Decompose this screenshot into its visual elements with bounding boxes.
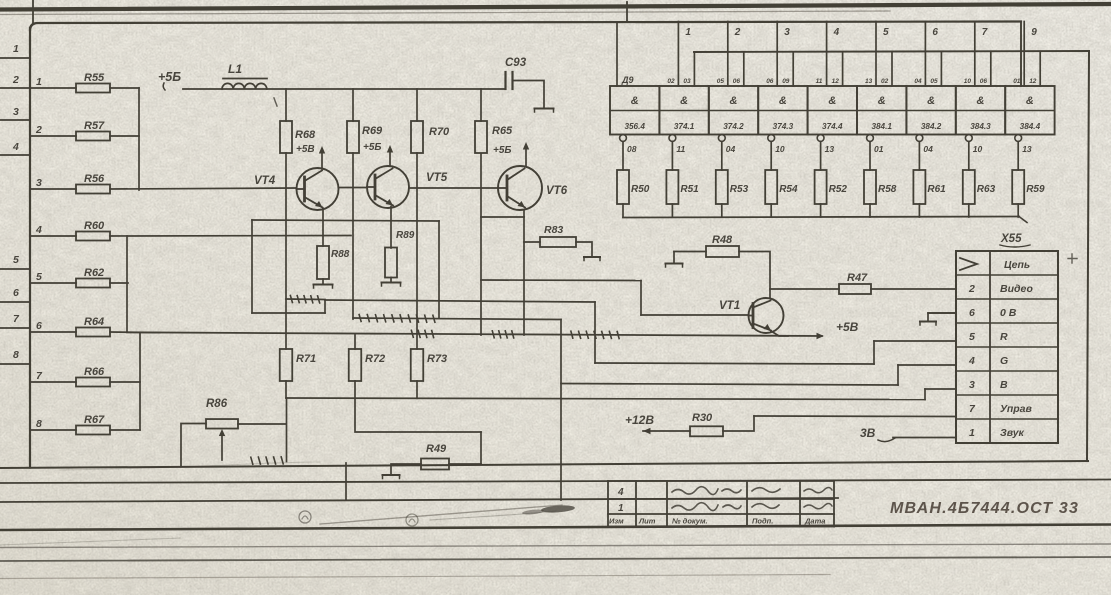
- resistor R68: [280, 121, 292, 153]
- gate inverted output pin: [768, 135, 775, 142]
- svg-text:05: 05: [717, 78, 725, 85]
- svg-text:R68: R68: [295, 129, 316, 141]
- resistor R69: [347, 121, 359, 153]
- svg-text:3: 3: [36, 177, 42, 189]
- svg-text:3: 3: [784, 27, 790, 38]
- gate output wire 1: [677, 22, 679, 87]
- faint scratch lines: [0, 538, 180, 545]
- svg-text:06: 06: [733, 78, 741, 85]
- wire rail to R68: [285, 89, 287, 121]
- +12V arrowhead: [643, 428, 651, 434]
- svg-text:R69: R69: [362, 125, 383, 137]
- svg-text:Х55: Х55: [1000, 233, 1022, 245]
- wire exiting top border left: [32, 0, 34, 24]
- svg-text:R61: R61: [927, 184, 946, 195]
- gate output wire 2: [727, 22, 729, 87]
- W2 step up: [897, 365, 899, 385]
- VT6 emitter wire: [523, 210, 525, 335]
- svg-text:8: 8: [36, 418, 42, 430]
- wire to chassis at R48: [673, 252, 675, 264]
- wire gate to R51: [671, 142, 673, 171]
- wire R86 to R71 column: [238, 423, 286, 425]
- page top edge line: [0, 4, 1111, 10]
- svg-text:05: 05: [930, 78, 938, 85]
- svg-text:374.2: 374.2: [723, 122, 744, 131]
- wire bus to R72: [354, 335, 356, 349]
- svg-text:10: 10: [775, 144, 785, 154]
- base line between VT5 and VT6: [409, 187, 498, 189]
- bus A joining R55 R57 R56: [138, 88, 140, 190]
- logic gate D9 element 356.4: [610, 86, 659, 135]
- X55 label underline: [1000, 245, 1030, 247]
- svg-text:2: 2: [35, 124, 42, 136]
- svg-text:4: 4: [35, 224, 42, 236]
- svg-text:R73: R73: [427, 353, 447, 365]
- svg-text:2: 2: [968, 283, 975, 295]
- gate output wire 9: [1023, 22, 1025, 87]
- svg-text:R56: R56: [84, 173, 105, 185]
- svg-text:+12В: +12В: [625, 413, 654, 427]
- logic gate D9 element 374.2: [709, 86, 758, 135]
- svg-text:VT1: VT1: [719, 300, 740, 312]
- transistor VT6: [498, 166, 542, 210]
- wire rail to R65: [480, 89, 482, 121]
- resistor R30: [690, 426, 723, 436]
- wire R88 to chassis: [322, 279, 324, 284]
- wire R55 to bus A: [110, 87, 139, 89]
- wire R66 to bus C: [110, 381, 140, 383]
- edge connector stub 3: [0, 119, 30, 121]
- svg-text:&: &: [1026, 95, 1034, 107]
- bus C joining R66 R67: [139, 333, 141, 430]
- wire R48 left: [674, 251, 706, 253]
- handwritten entries row 2: [672, 503, 741, 511]
- svg-text:6: 6: [36, 320, 42, 332]
- B step up at connector: [924, 389, 926, 400]
- wire R47 to pin 2 Video: [871, 288, 956, 290]
- bottom frame-bus horizontal wire: [0, 461, 1088, 468]
- wire R68 down through base node: [285, 153, 287, 349]
- gate pin to second rail: [792, 52, 794, 86]
- svg-text:11: 11: [676, 144, 685, 154]
- svg-text:13: 13: [825, 144, 835, 154]
- logic gate D9 element 384.4: [1005, 86, 1054, 135]
- svg-text:10: 10: [973, 144, 983, 154]
- wire to pin 7 Uprav: [754, 415, 956, 418]
- supply arrow hook: [163, 83, 165, 90]
- resistor R47: [839, 284, 871, 294]
- wire down to R49: [480, 432, 482, 464]
- svg-text:L1: L1: [228, 62, 242, 76]
- svg-text:04: 04: [923, 144, 933, 154]
- svg-text:374.3: 374.3: [773, 122, 794, 131]
- VT4 emitter wire: [322, 209, 324, 247]
- X55 header arrow: [960, 258, 977, 270]
- svg-text:1: 1: [36, 76, 42, 88]
- R86 wiper arrow: [221, 432, 223, 460]
- wire VT1 collector node to R47: [770, 288, 839, 290]
- edge connector stub 6: [0, 301, 30, 303]
- logic gate D9 element 374.3: [758, 86, 807, 135]
- svg-text:+5Б: +5Б: [363, 142, 381, 153]
- wire jog from B row: [355, 399, 481, 432]
- svg-text:R88: R88: [331, 249, 350, 260]
- svg-text:Изм: Изм: [609, 517, 624, 526]
- wire gate to R54: [770, 142, 772, 171]
- svg-text:+5Б: +5Б: [493, 145, 511, 156]
- svg-text:02: 02: [667, 78, 675, 85]
- long wire bottom 2: [0, 498, 838, 502]
- svg-text:4: 4: [968, 355, 975, 367]
- wire to R66: [30, 381, 76, 383]
- gate inverted output pin: [965, 135, 972, 142]
- wire R49 left to chassis: [391, 464, 421, 474]
- gate pin to second rail: [891, 52, 893, 86]
- gate inverted output pin: [669, 135, 676, 142]
- wire to R62: [30, 282, 76, 284]
- svg-text:13: 13: [865, 78, 873, 85]
- svg-text:+5В: +5В: [836, 320, 859, 334]
- signal wire W1 to connector R: [325, 300, 595, 302]
- svg-text:R54: R54: [779, 184, 798, 195]
- svg-text:R52: R52: [829, 184, 848, 195]
- svg-text:R51: R51: [680, 184, 699, 195]
- svg-text:VT5: VT5: [426, 172, 448, 184]
- edge connector stub 1: [0, 57, 30, 59]
- small cross mark near connector: [1068, 254, 1077, 263]
- wire R30 step up: [723, 416, 754, 431]
- inductor L1: [222, 83, 267, 89]
- wire R63 to bottom bus: [968, 204, 970, 217]
- svg-text:6: 6: [932, 27, 938, 38]
- svg-text:1: 1: [13, 43, 19, 55]
- svg-text:13: 13: [1022, 144, 1032, 154]
- transistor VT5: [367, 166, 409, 208]
- resistor R58: [864, 170, 876, 204]
- resistor R52: [815, 170, 827, 204]
- svg-text:5: 5: [36, 271, 42, 283]
- svg-text:R50: R50: [631, 184, 650, 195]
- wire from top bus down to D9 box 9 pin: [1020, 22, 1022, 87]
- wire R54 to bottom bus: [770, 204, 772, 217]
- svg-text:R30: R30: [692, 412, 713, 424]
- wire to R55: [30, 87, 76, 89]
- svg-text:Видео: Видео: [1000, 283, 1033, 295]
- svg-text:R55: R55: [84, 72, 105, 84]
- svg-text:09: 09: [782, 78, 790, 85]
- L1 symbol underline: [223, 78, 267, 80]
- resistor R64: [76, 328, 110, 337]
- svg-text:R49: R49: [426, 443, 447, 455]
- resistor R89: [385, 248, 397, 278]
- svg-text:01: 01: [874, 144, 884, 154]
- chassis ground at R48: [666, 263, 683, 265]
- gate inverted output pin: [718, 135, 725, 142]
- svg-text:R86: R86: [206, 398, 228, 410]
- svg-text:R59: R59: [1026, 184, 1045, 195]
- pen tick near rail: [274, 98, 277, 106]
- chassis ground at R89: [382, 282, 401, 284]
- svg-text:+5Б: +5Б: [158, 70, 181, 84]
- svg-text:&: &: [631, 95, 639, 107]
- wire down to VT1 base line: [640, 281, 642, 316]
- wire R61 to bottom bus: [918, 204, 920, 217]
- frame-bus top horizontal wire: [30, 22, 1021, 31]
- second top rail to gate right pins: [694, 51, 1089, 52]
- gate inverted output pin: [867, 135, 874, 142]
- hatched wire from R68 node: [286, 298, 325, 301]
- chassis bar 0V: [920, 321, 936, 323]
- wire R64 to +5V bus: [110, 331, 160, 334]
- wire R52 to bottom bus: [820, 204, 822, 217]
- wire gate to R59: [1017, 142, 1019, 171]
- long wire bottom 1: [0, 480, 1111, 484]
- gate inverted output pin: [817, 135, 824, 142]
- svg-text:R47: R47: [847, 272, 868, 284]
- resistor R65: [475, 121, 487, 153]
- old wire loop bottom: [252, 312, 325, 314]
- wire jog between bottom wires: [345, 463, 347, 500]
- resistor R83: [524, 241, 540, 243]
- chassis ground at R83: [584, 256, 600, 258]
- svg-text:9: 9: [1031, 27, 1037, 38]
- svg-text:R71: R71: [296, 353, 316, 365]
- wire C93 to chassis: [513, 81, 544, 109]
- svg-text:384.1: 384.1: [871, 122, 892, 131]
- svg-text:&: &: [779, 95, 787, 107]
- W2 step down long: [560, 320, 562, 501]
- svg-text:В: В: [1000, 379, 1008, 391]
- svg-text:3: 3: [969, 379, 975, 391]
- hatch marks near R86 junction: [251, 457, 283, 464]
- wire to R64: [30, 331, 76, 333]
- edge connector stub 8: [0, 363, 30, 365]
- gate output wire 3: [776, 22, 778, 87]
- long +5V distribution bus with revision hatches: [127, 332, 822, 336]
- svg-text:Управ: Управ: [1000, 403, 1033, 415]
- resistor R62: [76, 279, 110, 288]
- svg-text:03: 03: [683, 78, 691, 85]
- logic gate D9 element 384.3: [956, 86, 1005, 135]
- svg-text:R: R: [1000, 331, 1008, 343]
- VT5 collector +5V arrow: [389, 149, 391, 166]
- resistor R59: [1012, 170, 1024, 204]
- VT1 base wire: [641, 314, 749, 316]
- svg-text:5: 5: [969, 331, 975, 343]
- svg-text:2: 2: [12, 74, 19, 86]
- svg-text:10: 10: [964, 78, 972, 85]
- bus end hook: [1019, 217, 1027, 223]
- logic gate D9 element 374.1: [659, 86, 708, 135]
- chassis ground at 0V pin: [928, 313, 956, 321]
- svg-text:R64: R64: [84, 316, 104, 328]
- resistor R73: [411, 349, 424, 381]
- wire R65 down to bus: [480, 154, 482, 335]
- svg-text:&: &: [680, 95, 688, 107]
- logic gate D9 element 384.1: [857, 86, 906, 135]
- VT1 emitter wire to +5V bus arrow: [771, 331, 788, 336]
- capacitor C93 plates: [504, 72, 506, 89]
- stamp mark circle 1: [299, 511, 311, 523]
- chassis ground at R49: [383, 474, 400, 476]
- svg-text:5: 5: [13, 254, 19, 266]
- resistor R49: [421, 459, 449, 470]
- wire exiting top border centre: [626, 2, 628, 22]
- svg-text:3В: 3В: [860, 426, 876, 440]
- W1 step down: [594, 302, 596, 363]
- wire R53 to bottom bus: [721, 204, 723, 217]
- resistor R88: [317, 246, 329, 279]
- page lower edge line: [0, 557, 1111, 561]
- gate 1 pin to top bus: [616, 23, 618, 86]
- chassis ground at R88: [314, 284, 333, 286]
- wire R57 to bus A: [110, 135, 139, 137]
- wire to R86: [181, 424, 206, 466]
- gate pin to second rail: [693, 52, 695, 86]
- svg-text:C93: C93: [505, 57, 527, 69]
- svg-text:384.4: 384.4: [1020, 122, 1041, 131]
- wire R56 to VT4 base: [110, 188, 297, 189]
- bottom border line: [0, 525, 1111, 531]
- svg-text:&: &: [828, 95, 836, 107]
- svg-text:4: 4: [12, 141, 19, 153]
- frame-bus left vertical wire: [29, 28, 31, 468]
- wire R62 to bus B: [110, 282, 128, 284]
- title block table: [608, 480, 834, 482]
- svg-text:6: 6: [969, 307, 975, 319]
- svg-text:R65: R65: [492, 125, 513, 137]
- faint lower line: [0, 575, 830, 579]
- wire R83 to chassis: [576, 242, 592, 256]
- resistor R70: [411, 121, 423, 153]
- svg-text:R89: R89: [396, 230, 415, 241]
- svg-text:06: 06: [980, 78, 988, 85]
- resistor R54: [765, 170, 777, 204]
- wire R59 to bottom bus: [1017, 204, 1019, 217]
- VT5 emitter wire: [390, 207, 392, 249]
- arrowhead of +5V bus at VT1 emitter: [817, 333, 825, 339]
- transistor VT4: [297, 168, 339, 210]
- svg-text:4: 4: [617, 487, 624, 498]
- svg-text:356.4: 356.4: [624, 122, 645, 131]
- resistor R63: [963, 170, 975, 204]
- signal wire B row: [286, 398, 925, 400]
- old wire loop right: [438, 221, 440, 318]
- handwritten entries row 1: [672, 487, 741, 495]
- ink smudge: [541, 504, 575, 513]
- svg-text:374.1: 374.1: [674, 122, 695, 131]
- svg-text:&: &: [878, 95, 886, 107]
- connector X55 body: [956, 251, 1058, 443]
- gate pin to second rail: [940, 52, 942, 86]
- svg-text:&: &: [977, 95, 985, 107]
- svg-text:МВАН.4Б7444.ОСТ 33: МВАН.4Б7444.ОСТ 33: [890, 500, 1079, 517]
- stamp mark circle 2: [406, 514, 418, 526]
- svg-text:R62: R62: [84, 267, 104, 279]
- svg-text:374.4: 374.4: [822, 122, 843, 131]
- wire gate to R63: [968, 142, 970, 171]
- hatched wire W2 from R69 column: [353, 318, 561, 320]
- emitter link wire to R65 column: [481, 216, 524, 218]
- potentiometer R86: [206, 419, 238, 429]
- svg-text:04: 04: [726, 144, 736, 154]
- transistor VT1: [749, 298, 784, 333]
- svg-text:11: 11: [816, 78, 823, 85]
- svg-text:&: &: [927, 95, 935, 107]
- svg-text:4: 4: [833, 27, 840, 38]
- svg-text:3: 3: [13, 106, 19, 118]
- wire to R60: [30, 235, 76, 237]
- svg-text:12: 12: [1029, 78, 1037, 85]
- base line between VT4 and VT5: [339, 187, 368, 189]
- resistor R61: [913, 170, 925, 204]
- svg-text:№ докум.: № докум.: [672, 517, 708, 526]
- svg-text:R57: R57: [84, 120, 105, 132]
- svg-text:R70: R70: [429, 126, 450, 138]
- svg-text:384.2: 384.2: [921, 122, 942, 131]
- resistor R56: [76, 185, 110, 194]
- wire rail to R69: [352, 89, 354, 121]
- svg-text:08: 08: [627, 144, 637, 154]
- svg-text:G: G: [1000, 355, 1008, 367]
- wire into pin 4 G: [898, 364, 956, 366]
- wire R71 bottom: [285, 381, 287, 398]
- resistor R50: [617, 170, 629, 204]
- wire gate to R50: [622, 142, 624, 171]
- gate pin to second rail: [842, 52, 844, 86]
- resistor R71: [280, 349, 293, 381]
- svg-text:1: 1: [618, 503, 624, 514]
- old wire loop top: [252, 220, 439, 221]
- svg-text:5: 5: [883, 27, 889, 38]
- svg-text:1: 1: [685, 27, 691, 38]
- svg-text:R63: R63: [977, 184, 996, 195]
- wire R49 right: [449, 463, 481, 465]
- svg-text:R53: R53: [730, 184, 749, 195]
- svg-text:R58: R58: [878, 184, 897, 195]
- resistor R55: [76, 84, 110, 93]
- resistor R66: [76, 378, 110, 387]
- wire link to VT1 base column: [481, 279, 641, 282]
- logic gate D9 element 384.2: [906, 86, 955, 135]
- edge connector stub 4: [0, 154, 30, 156]
- wire R58 to bottom bus: [869, 204, 871, 217]
- wire R51 to bottom bus: [671, 204, 673, 217]
- resistor R57: [76, 132, 110, 141]
- svg-text:Д9: Д9: [621, 75, 634, 85]
- wire R71 column down to bottom bus: [286, 398, 288, 462]
- logic gate D9 element 374.4: [808, 86, 857, 135]
- svg-text:Подп.: Подп.: [752, 517, 773, 526]
- svg-text:8: 8: [13, 349, 19, 361]
- wire R60 right: [110, 235, 351, 238]
- svg-text:7: 7: [982, 27, 988, 38]
- svg-text:R48: R48: [712, 234, 733, 246]
- scan fold line: [0, 544, 1111, 548]
- wire R48 to VT1 collector: [739, 252, 770, 299]
- W2 horizontal to connector G: [561, 384, 898, 386]
- gate pin to second rail: [990, 52, 992, 86]
- svg-text:Звук: Звук: [1000, 427, 1025, 439]
- wire into pin 5 R: [874, 340, 956, 342]
- svg-text:1: 1: [969, 427, 975, 439]
- +5V rail wire: [183, 88, 505, 90]
- wire to R56: [30, 188, 76, 190]
- wire rail to R70: [416, 89, 418, 121]
- wire R73 bottom: [416, 381, 418, 398]
- svg-text:Цепь: Цепь: [1004, 259, 1030, 271]
- svg-text:06: 06: [766, 78, 774, 85]
